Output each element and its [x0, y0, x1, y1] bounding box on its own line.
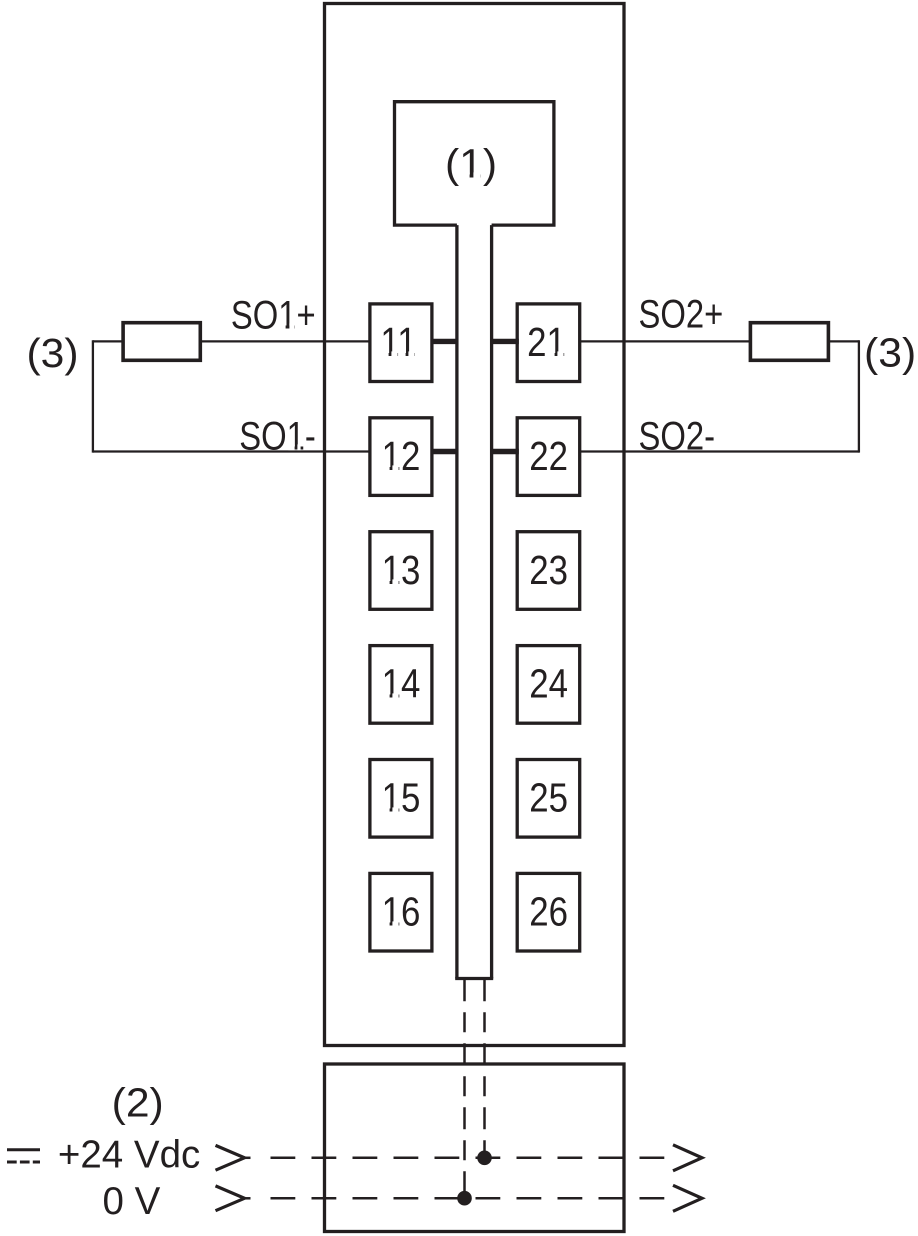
internal bus left line	[455, 225, 458, 978]
terminal 24	[517, 646, 580, 724]
svg-text:(3): (3)	[864, 329, 916, 375]
svg-text:23: 23	[529, 548, 568, 593]
internal bus right line	[490, 225, 493, 978]
svg-text:11: 11	[380, 320, 416, 365]
pin number 22	[529, 434, 568, 479]
DC symbol	[7, 1148, 40, 1151]
junction dot +24 Vdc	[477, 1151, 492, 1166]
0 V dashed wire	[271, 1197, 665, 1200]
arrow out 0 V right	[673, 1185, 702, 1211]
pin number 25	[529, 776, 568, 821]
svg-text:13: 13	[382, 548, 421, 593]
thick link terminal 12 to bus	[431, 449, 459, 454]
thick link bus to terminal 22	[490, 449, 519, 454]
label SO1+	[231, 292, 316, 337]
pin number 13	[382, 548, 421, 593]
junction dot 0 V	[457, 1191, 472, 1206]
load resistor right (3)	[750, 323, 828, 361]
svg-text:SO2+: SO2+	[639, 291, 724, 336]
pin number 26	[529, 890, 568, 935]
label (3) right	[864, 329, 916, 375]
label SO1-	[239, 413, 316, 458]
pin number 16	[382, 890, 421, 935]
svg-text:24: 24	[529, 662, 568, 707]
terminal 12	[370, 418, 432, 496]
+24 Vdc wire solid lead	[245, 1157, 251, 1160]
svg-text:22: 22	[529, 434, 568, 479]
electronics block (1) outline with bus gap	[395, 102, 554, 225]
thick link terminal 11 to bus	[431, 339, 459, 344]
label (1)	[445, 140, 497, 186]
svg-text:26: 26	[529, 890, 568, 935]
arrow into 0 V line	[216, 1186, 245, 1211]
svg-text:(2): (2)	[112, 1079, 164, 1125]
wire right load vertical	[858, 340, 860, 452]
+24 Vdc dashed wire	[271, 1157, 665, 1160]
pin number 23	[529, 548, 568, 593]
terminal 21	[517, 304, 580, 382]
label (2)	[112, 1079, 164, 1125]
pin number 12	[382, 434, 421, 479]
arrow out +24 Vdc right	[673, 1145, 702, 1171]
svg-text:16: 16	[382, 890, 421, 935]
pin number 21	[527, 320, 566, 365]
svg-text:SO1-: SO1-	[239, 413, 316, 458]
dashed drop wire to 0 V	[463, 979, 466, 1198]
terminal 11	[370, 304, 432, 382]
terminal 16	[370, 873, 432, 951]
svg-text:15: 15	[382, 776, 421, 821]
internal bus bottom cap	[455, 977, 493, 980]
svg-text:25: 25	[529, 776, 568, 821]
terminal 15	[370, 760, 432, 838]
terminal 22	[517, 418, 580, 496]
svg-text:0 V: 0 V	[103, 1180, 161, 1223]
0 V wire solid lead	[245, 1197, 251, 1200]
pin number 24	[529, 662, 568, 707]
dashed drop wire to +24 Vdc	[483, 979, 486, 1158]
svg-text:14: 14	[382, 662, 421, 707]
thick link bus to terminal 21	[490, 339, 519, 344]
pin number 11	[380, 320, 416, 365]
module body outline	[325, 4, 625, 1046]
wire SO2- from terminal 22 to load	[580, 450, 859, 452]
power feed box	[325, 1064, 625, 1232]
svg-text:(1): (1)	[445, 140, 497, 186]
wire SO2+ from terminal 21 to load	[580, 340, 751, 342]
arrow into +24 Vdc line	[216, 1145, 245, 1170]
load resistor left (3)	[123, 323, 200, 361]
wire SO1+ from load to terminal 11	[93, 340, 123, 342]
pin number 14	[382, 662, 421, 707]
wire left load vertical	[92, 340, 94, 452]
terminal 23	[517, 532, 580, 610]
terminal 25	[517, 760, 580, 838]
label (3) left	[26, 330, 78, 376]
terminal 14	[370, 646, 432, 724]
svg-text:SO1+: SO1+	[231, 292, 316, 337]
terminal 13	[370, 532, 432, 610]
label SO2+	[639, 291, 724, 336]
svg-text:21: 21	[527, 320, 566, 365]
terminal 26	[517, 873, 580, 951]
svg-text:12: 12	[382, 434, 421, 479]
pin number 15	[382, 776, 421, 821]
svg-text:SO2-: SO2-	[639, 413, 716, 458]
wire SO1- from load to terminal 12	[93, 450, 370, 452]
svg-text:(3): (3)	[26, 330, 78, 376]
label SO2-	[639, 413, 716, 458]
svg-text:+24 Vdc: +24 Vdc	[58, 1133, 200, 1176]
white patches removing Liberation "1" foot serifs (target font has none)	[461, 172, 469, 178]
